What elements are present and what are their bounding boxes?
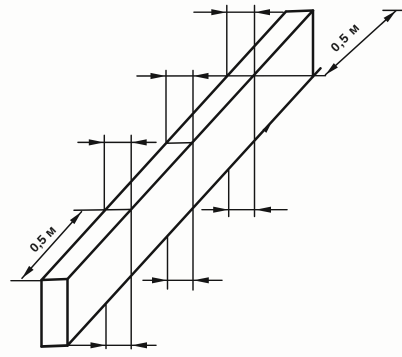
right end face right vertical edge <box>312 11 315 77</box>
left 0,5m dimension arrow line <box>22 212 82 279</box>
arrowhead right at v3 <box>211 9 227 15</box>
extension vertical v2b below beam <box>167 237 169 289</box>
left 0,5m arrowhead upper <box>70 212 82 224</box>
extension line top right corner <box>383 9 402 11</box>
extension vertical v1b below beam <box>105 304 107 348</box>
extension vertical v3 <box>226 6 228 77</box>
arrowhead right at v2 <box>151 73 167 79</box>
left end face right vertical edge <box>66 279 69 346</box>
extension vertical w1 (section 1 trace) <box>130 135 132 348</box>
small arrowhead on edge D <box>263 124 271 133</box>
beam bottom long edge D <box>68 68 321 345</box>
beam ridge long edge B <box>68 11 314 280</box>
right end face top edge <box>286 11 313 12</box>
arrowhead left at w3b <box>256 207 272 213</box>
bottom dimension line bd1 <box>68 344 156 346</box>
extension vertical v1 <box>103 135 105 210</box>
arrowhead left at w3 <box>255 9 271 15</box>
extension line left of corner A0 <box>11 280 42 282</box>
right 0,5m arrowhead upper <box>384 11 396 23</box>
right 0,5m arrowhead lower <box>326 63 338 75</box>
left end face bottom edge <box>42 346 68 347</box>
left end face top edge <box>42 279 68 280</box>
extension vertical v2 <box>165 71 167 144</box>
tick t2 across top face <box>166 142 193 145</box>
extension vertical w2 (section 2 trace) <box>192 71 194 291</box>
long horizontal line level 1 (dim s2 / right face bottom) <box>137 75 326 77</box>
arrowhead right at v3b <box>213 207 229 213</box>
dimension line top (section 3) <box>194 11 283 13</box>
arrowhead left at w2 <box>193 73 209 79</box>
bottom dimension line bd2 <box>143 279 222 281</box>
arrowhead right at v2b <box>152 277 168 283</box>
arrowhead right at v1b <box>91 342 107 348</box>
left 0,5m arrowhead lower <box>22 266 34 278</box>
tick t1 across top face <box>74 208 131 211</box>
arrowhead left at w1 <box>131 139 147 145</box>
arrowhead left at w2b <box>193 277 209 283</box>
extension vertical w3 (section 3 trace) <box>254 6 256 217</box>
arrowhead left at w1b <box>132 342 148 348</box>
extension vertical v3b below beam <box>228 170 230 217</box>
right 0,5m dimension arrow line <box>326 11 397 75</box>
bottom dimension line bd3 <box>202 209 287 211</box>
dimension line s1 <box>78 141 156 143</box>
arrowhead right at v1 <box>89 139 105 145</box>
beam top-near long edge A <box>42 12 287 281</box>
left end face left vertical edge <box>40 280 43 347</box>
